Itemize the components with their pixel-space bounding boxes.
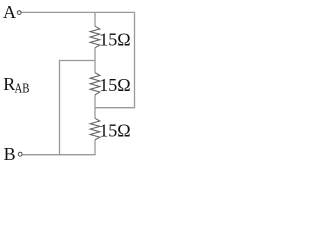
resistor R2 zigzag — [90, 73, 100, 95]
svg-text:15Ω: 15Ω — [99, 75, 130, 95]
wire: right rail vertical — [134, 12, 136, 107]
wire: junction between R2 and R3 to right rail — [95, 107, 136, 109]
svg-text:15Ω: 15Ω — [99, 120, 130, 140]
wire: R1 bottom lead — [94, 48, 96, 61]
svg-text:15Ω: 15Ω — [99, 30, 130, 50]
terminal A circle — [17, 11, 21, 15]
wire: top horizontal from A to right rail — [22, 11, 135, 13]
wire: R3 bottom lead — [94, 140, 96, 155]
resistor R1 zigzag — [90, 26, 100, 48]
wire: R1 top lead — [94, 12, 96, 26]
wire: R2 top lead — [94, 61, 96, 73]
wire: left rail vertical — [59, 60, 61, 155]
wire: bottom horizontal from B to chain — [23, 154, 96, 156]
resistor R3 zigzag — [90, 118, 100, 140]
wire: R3 top lead — [94, 108, 96, 119]
wire: R2 bottom lead — [94, 95, 96, 108]
wire: junction between R1 and R2 to left rail — [60, 60, 96, 62]
terminal B circle — [18, 152, 22, 156]
svg-text:A: A — [3, 2, 16, 22]
svg-text:B: B — [4, 144, 16, 164]
svg-text:RAB: RAB — [3, 74, 29, 97]
